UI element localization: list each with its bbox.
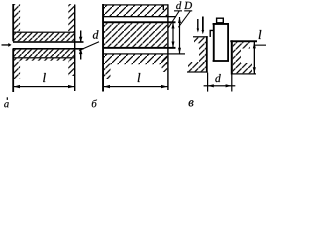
figure a : upper hatched band xyxy=(14,33,74,42)
figure v : label l xyxy=(259,30,262,39)
figure a : caption accent tick xyxy=(7,97,8,100)
figure a : upper-left edge hatch strip xyxy=(14,4,20,32)
figure b : caption xyxy=(92,99,97,107)
figure v : right wall hole edge xyxy=(231,40,233,74)
figure b : dimension line l with arrows xyxy=(103,86,168,87)
figure b : band tick mark xyxy=(163,5,164,11)
figure v : plug left flange tab xyxy=(210,30,213,37)
figure b : label d xyxy=(176,1,181,9)
figure v : left wall top face xyxy=(193,36,208,37)
figure v : plug knob xyxy=(217,18,224,23)
figure b : D dimension line with arrows xyxy=(179,17,180,54)
figure b : top hatched band (sleeve wall) xyxy=(104,6,167,17)
figure b : sleeve left face line xyxy=(102,4,104,92)
figure v : caption xyxy=(189,100,194,106)
figure a : wall right face line xyxy=(74,5,75,92)
figure a : label d xyxy=(93,30,99,38)
figure a : dimension line l with arrows xyxy=(13,86,75,87)
figure b : bottom hatched band (sleeve wall) xyxy=(104,55,167,65)
figure b : lower-right edge hatch strip xyxy=(162,55,168,72)
figure b : d label shelf and leader xyxy=(174,10,182,11)
figure v : plug body top thick edge xyxy=(213,23,229,25)
figure v : label d xyxy=(215,74,220,82)
figure v : d dimension line with arrows xyxy=(204,85,236,86)
figure v : right wall top face thick xyxy=(230,40,257,42)
figure a : d dimension upper extension with down arrow xyxy=(80,31,81,43)
figure a : d dimension lower extension with up arrow xyxy=(80,49,81,60)
figure a : label l xyxy=(43,73,46,82)
figure a : caption xyxy=(4,102,9,107)
figure v : left wall bottom face xyxy=(187,71,208,72)
figure a : leader line to d label xyxy=(79,42,99,51)
figure a : upper-right edge hatch strip xyxy=(68,4,74,32)
figure a : flow arrow entering xyxy=(2,44,9,45)
figure b : shaft top thick line with right extension xyxy=(104,21,176,23)
figure a : slot top thick line xyxy=(13,41,84,43)
figure b : label D xyxy=(184,2,192,9)
figure b : D label shelf and leader xyxy=(184,10,192,11)
figure a : band top edge line xyxy=(13,32,75,33)
figure v : l dimension line with arrows xyxy=(254,42,255,74)
figure v : d dimension extension lines xyxy=(207,73,208,92)
figure b : lower-left edge hatch strip xyxy=(104,64,111,80)
figure v : plug body left edge xyxy=(213,23,215,61)
figure v : right wall bottom face xyxy=(232,73,256,74)
figure v : upper tick stroke 2 xyxy=(202,17,204,31)
figure b : bore top line with right extension xyxy=(104,16,176,17)
figure a : hatch tick row under band xyxy=(14,58,74,60)
figure b : shaft hatched body xyxy=(104,23,167,47)
figure v : left wall hatching xyxy=(194,37,206,43)
figure b : shaft bottom thick line with right extension xyxy=(104,47,176,49)
figure v : upper tick stroke 1 xyxy=(197,19,198,30)
figure a : lower-right edge hatch strip xyxy=(68,62,74,77)
figure a : band bottom edge line xyxy=(13,57,75,58)
figure v : plug body right edge xyxy=(227,23,229,61)
figure v : right wall hatching xyxy=(233,42,250,48)
figure a : wall left face line (broken at slot) xyxy=(12,4,14,41)
figure b : d dimension line with arrows xyxy=(172,23,173,48)
figure b : bore bottom line with long right extension xyxy=(104,53,185,54)
figure b : sleeve right face line xyxy=(167,4,168,90)
figure b : sleeve top edge line xyxy=(103,4,168,5)
figure b : label l xyxy=(138,73,141,82)
figure a : lower hatched band xyxy=(14,50,74,58)
figure v : plug bottom thick edge xyxy=(213,60,229,62)
figure v : l label hook xyxy=(254,45,266,46)
figure a : slot bottom thick line xyxy=(13,48,84,50)
figure v : left wall hole edge xyxy=(206,36,208,72)
figure a : lower-left edge hatch strip xyxy=(14,62,20,80)
